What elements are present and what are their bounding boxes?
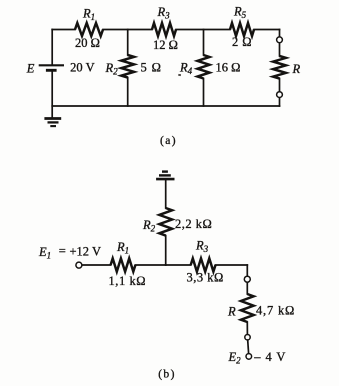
ground symbol (circuit a)	[44, 119, 61, 127]
svg-text:2: 2	[232, 35, 238, 49]
svg-text:R2: R2	[105, 61, 119, 77]
wire: terminal to resistor R (circuit b)	[246, 282, 248, 294]
wire: top terminal to resistor R	[279, 43, 281, 56]
svg-text:2,2 kΩ: 2,2 kΩ	[175, 217, 212, 231]
svg-text:R3: R3	[195, 239, 209, 255]
resistor R3, 12 ohm	[152, 23, 176, 36]
wire: bottom rail	[52, 105, 279, 107]
wire: left branch, top rail down to battery + plate	[51, 30, 53, 65]
svg-text:3,3 kΩ: 3,3 kΩ	[187, 271, 224, 285]
wire: top rail, R5 to top-right corner	[254, 29, 280, 31]
wire: right branch, corner down to top terminal	[279, 30, 281, 38]
svg-text:12 Ω: 12 Ω	[153, 38, 178, 52]
svg-text:4,7 kΩ: 4,7 kΩ	[256, 304, 295, 318]
wire: resistor R to lower terminal (circuit b)	[246, 322, 248, 334]
wire: R2 to center node (circuit b)	[165, 236, 167, 265]
svg-text:R3: R3	[157, 5, 171, 21]
wire: center node to R3 (circuit b)	[166, 264, 191, 266]
terminal: top of R (circuit b)	[244, 276, 250, 282]
resistor R5, 2 ohm	[230, 23, 254, 36]
wire: ground down to R2 (circuit b)	[165, 180, 167, 208]
wire: R2 branch resistor to bottom rail	[127, 78, 129, 107]
resistor R1, 1.1 kohm (circuit b)	[111, 258, 136, 271]
resistor R4, 16 ohm	[198, 55, 210, 79]
scan speck near R4	[178, 74, 181, 76]
svg-text:R1: R1	[116, 240, 129, 256]
svg-text:R: R	[292, 62, 301, 76]
svg-text:+12 V: +12 V	[70, 245, 101, 259]
svg-text:20 Ω: 20 Ω	[75, 36, 100, 50]
wire: top rail, R3 to R5 (node with R4 branch)	[176, 29, 230, 31]
wire: R4 branch top rail to resistor	[203, 30, 205, 56]
svg-text:Ω: Ω	[242, 35, 251, 49]
wire: top rail, node E-top to R1	[52, 29, 75, 31]
svg-text:R4: R4	[179, 61, 193, 77]
svg-text:20 V: 20 V	[70, 61, 94, 75]
wire: R4 branch resistor to bottom rail	[203, 79, 205, 107]
wire: bottom terminal to bottom rail	[279, 97, 281, 106]
svg-text:R1: R1	[82, 7, 95, 23]
resistor R, 4.7 kohm (circuit b)	[241, 294, 254, 322]
terminal: bottom of R (circuit b)	[245, 335, 250, 340]
wire: E1 terminal to R1 (circuit b)	[82, 264, 111, 266]
terminal: bottom of load R (circuit a)	[277, 92, 283, 98]
svg-text:16 Ω: 16 Ω	[216, 61, 241, 75]
battery E: long positive plate	[39, 64, 64, 66]
terminal: E1 input (circuit b)	[76, 262, 82, 268]
svg-text:=: =	[59, 244, 66, 258]
wire: resistor R to bottom terminal	[279, 79, 281, 92]
svg-text:E2: E2	[228, 350, 242, 366]
svg-text:R: R	[227, 305, 236, 319]
svg-text:R2: R2	[142, 218, 156, 234]
wire: R3 to right corner (circuit b)	[216, 264, 248, 266]
resistor R2, 2.2 kohm (circuit b)	[159, 208, 172, 236]
ground symbol, inverted (circuit b)	[156, 172, 174, 180]
svg-text:1,1 kΩ: 1,1 kΩ	[109, 274, 147, 288]
wire: top rail, R1 to R3 (node with R2 branch)	[103, 29, 152, 31]
svg-text:– 4 V: – 4 V	[253, 350, 286, 364]
resistor R1, 20 ohm	[75, 23, 103, 36]
svg-text:(a): (a)	[160, 135, 177, 147]
battery E: short negative plate	[46, 69, 57, 72]
wire: battery - plate down to ground	[51, 71, 53, 117]
resistor R (load, circuit a)	[273, 56, 286, 79]
wire: R2 branch top rail to resistor	[127, 30, 129, 56]
svg-text:E: E	[26, 62, 35, 76]
svg-text:(b): (b)	[158, 369, 176, 381]
svg-text:E1: E1	[38, 245, 51, 261]
svg-text:R5: R5	[233, 5, 247, 21]
wire: R1 to center node (circuit b)	[135, 264, 165, 266]
svg-text:5 Ω: 5 Ω	[141, 61, 162, 75]
wire: right corner down to top terminal of R (circuit b)	[246, 265, 248, 276]
terminal: top of load R (circuit a)	[277, 37, 283, 43]
resistor R3, 3.3 kohm (circuit b)	[191, 258, 216, 271]
terminal: E2 (circuit b)	[246, 354, 252, 360]
wire: lower terminal to E2 terminal (circuit b)	[247, 340, 250, 353]
resistor R2, 5 ohm	[121, 55, 134, 78]
